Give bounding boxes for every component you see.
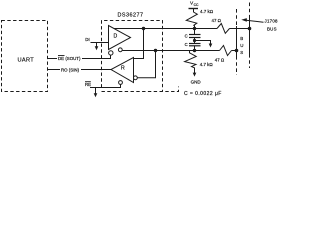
resistor 4.7k pulldown	[185, 51, 197, 68]
bus line right	[249, 3, 251, 16]
driver enable bubble	[109, 51, 113, 55]
svg-text:D: D	[114, 34, 118, 40]
resistor 4.7k pullup	[186, 9, 197, 29]
svg-text:DI: DI	[85, 37, 89, 42]
svg-text:R: R	[121, 65, 125, 71]
svg-text:RO (SIN): RO (SIN)	[61, 67, 80, 72]
wire DI input	[91, 42, 109, 44]
DS36277 box	[102, 21, 163, 92]
svg-text:DE (SOUT): DE (SOUT)	[58, 56, 81, 61]
svg-text:4.7 kΩ: 4.7 kΩ	[200, 62, 214, 67]
svg-text:BUS: BUS	[267, 26, 277, 31]
node capacitor midpoint	[193, 39, 196, 42]
resistor 47 ohm bottom	[220, 46, 232, 56]
svg-text:U: U	[240, 43, 243, 48]
ground arrow on RE	[95, 88, 97, 94]
wire mid node to ground arrow	[195, 41, 211, 45]
svg-text:J1708: J1708	[265, 19, 279, 24]
svg-text:C: C	[185, 42, 188, 47]
svg-text:C = 0.0022 μF: C = 0.0022 μF	[184, 91, 222, 97]
svg-text:CC: CC	[194, 3, 199, 7]
svg-text:S: S	[240, 50, 243, 55]
svg-text:47 Ω: 47 Ω	[215, 58, 225, 63]
wire UART to DE label	[48, 58, 58, 60]
driver inverting output bubble	[118, 48, 122, 52]
ground arrow below pulldown	[194, 68, 196, 74]
node C2 tap	[193, 49, 196, 52]
capacitor C1	[189, 34, 201, 36]
receiver input B wire	[137, 51, 155, 78]
svg-text:4.7 kΩ: 4.7 kΩ	[200, 9, 214, 14]
svg-text:47 Ω: 47 Ω	[212, 18, 222, 23]
receiver R	[111, 58, 134, 83]
svg-text:C: C	[185, 33, 188, 38]
wire A to capacitor	[194, 29, 196, 35]
wire C1 to mid node	[194, 38, 196, 44]
wire C2 to bus B	[194, 46, 196, 51]
ground arrow on DI	[96, 43, 98, 47]
bus line left	[236, 9, 238, 26]
receiver inverting input bubble	[134, 76, 138, 80]
J1708 arrow	[246, 20, 264, 22]
node receiver A tap	[142, 27, 145, 30]
node receiver B tap	[154, 49, 157, 52]
wire bus B	[123, 50, 220, 52]
receiver enable bubble RE	[119, 81, 123, 85]
wire UART to RO label	[48, 69, 61, 71]
svg-text:UART: UART	[18, 57, 35, 63]
svg-text:RE: RE	[85, 82, 91, 87]
driver D	[109, 26, 131, 50]
receiver input A wire	[134, 29, 144, 59]
UART box	[2, 21, 48, 92]
wire RO output	[81, 69, 111, 71]
resistor 47 ohm top	[217, 24, 230, 34]
ground arrow on capacitor midpoint	[209, 44, 213, 48]
svg-text:GND: GND	[191, 80, 202, 85]
svg-text:B: B	[240, 36, 243, 41]
DS36277 box bottom edge	[102, 87, 179, 92]
wire DE to driver enable	[82, 55, 111, 58]
capacitor C2	[189, 43, 201, 45]
svg-text:DS36277: DS36277	[118, 12, 144, 18]
wire RE to receiver enable	[90, 84, 121, 87]
wire bus A	[114, 28, 217, 30]
node bus A connection	[248, 27, 252, 31]
node bus B connection	[235, 49, 239, 53]
node A pullup tap	[193, 27, 196, 30]
